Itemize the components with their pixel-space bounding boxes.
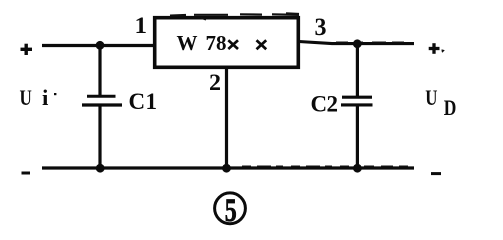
capacitor C1 plates xyxy=(82,96,122,105)
node D junction dot (bottom / pin 2) xyxy=(222,164,231,173)
wire: C1 lower branch xyxy=(98,105,101,168)
wire: C2 upper branch xyxy=(356,44,359,98)
pin 2 label xyxy=(209,70,221,95)
scan smudge line above regulator box xyxy=(170,14,299,20)
pin 1 label xyxy=(135,13,148,38)
+ terminal (input) xyxy=(21,44,33,55)
label Ui (input voltage) xyxy=(20,85,57,110)
label C2 xyxy=(311,92,339,117)
label UD (output voltage) xyxy=(425,85,456,120)
svg-text:W: W xyxy=(177,31,198,55)
node E junction dot (bottom / C2) xyxy=(353,164,362,173)
svg-text:5: 5 xyxy=(225,193,237,229)
wire texture marks on pin 3 output wire xyxy=(336,41,410,43)
svg-text:3: 3 xyxy=(315,12,327,41)
node C junction dot (bottom / C1) xyxy=(96,164,105,173)
svg-text:C 1: C 1 xyxy=(129,89,158,114)
- terminal (input) xyxy=(22,172,31,175)
label C1 xyxy=(129,89,158,114)
wire: C2 lower branch xyxy=(356,105,359,168)
svg-text:78: 78 xyxy=(206,31,227,55)
node A junction dot (input wire / C1) xyxy=(96,41,105,50)
wire: C1 upper branch xyxy=(98,45,101,97)
svg-text:i: i xyxy=(42,85,48,110)
regulator U1 box outline xyxy=(155,18,299,68)
svg-text:D: D xyxy=(444,95,457,120)
+ terminal (output) xyxy=(429,43,444,54)
capacitor C2 plates xyxy=(341,97,373,105)
pin 3 label xyxy=(315,12,327,41)
wire: pin 3 output wire xyxy=(299,42,414,44)
value label W 78xx inside regulator xyxy=(177,31,267,55)
- terminal (output) xyxy=(431,172,441,175)
wire: pin 2 ground branch xyxy=(225,67,228,168)
svg-text:C 2: C 2 xyxy=(311,92,339,117)
node B junction dot (output wire / C2) xyxy=(353,39,362,48)
wire: bottom return wire xyxy=(42,166,414,169)
wire texture marks on bottom return wire xyxy=(242,165,408,167)
svg-text:2: 2 xyxy=(209,70,221,95)
wire: top-left input wire from + terminal to pin 1 xyxy=(42,44,155,47)
figure number circle 5 xyxy=(215,193,246,229)
svg-text:U: U xyxy=(20,85,32,110)
svg-text:1: 1 xyxy=(135,13,148,38)
svg-text:U: U xyxy=(425,85,437,110)
